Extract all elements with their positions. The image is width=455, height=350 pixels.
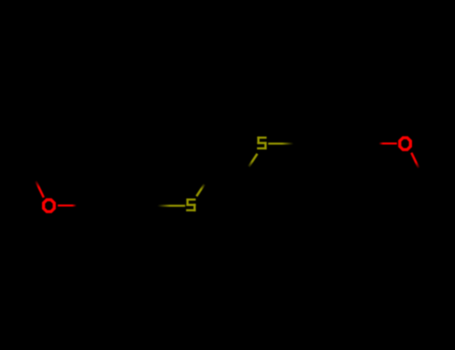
bond CH3-O (left methyl, O half, red fading): [36, 181, 44, 198]
bond O2-CH3 (right methyl, O half, red fading down-right): [411, 153, 418, 168]
bond C4 ring-S1 (S half, olive, fades toward carbon): [158, 205, 186, 207]
bond O1-C1 ring (O half, red, fades toward carbon): [58, 204, 77, 206]
bond S1-C7 (S half, olive diagonal up-right, fades toward CH2): [197, 184, 205, 196]
bond C8-S2 (S half, olive diagonal from lower-left, fades toward CH2): [249, 154, 257, 167]
atom O1 (left methoxy oxygen): [42, 198, 56, 213]
atom S2 (right sulfur): [257, 137, 267, 150]
atom S1 (left sulfur): [186, 199, 196, 212]
bond S2-C ring right (S half, olive, fades toward carbon): [268, 143, 293, 145]
atom O2 (right methoxy oxygen): [398, 136, 412, 151]
bond ring C-O2 (O half, red, fades toward carbon): [379, 142, 397, 144]
